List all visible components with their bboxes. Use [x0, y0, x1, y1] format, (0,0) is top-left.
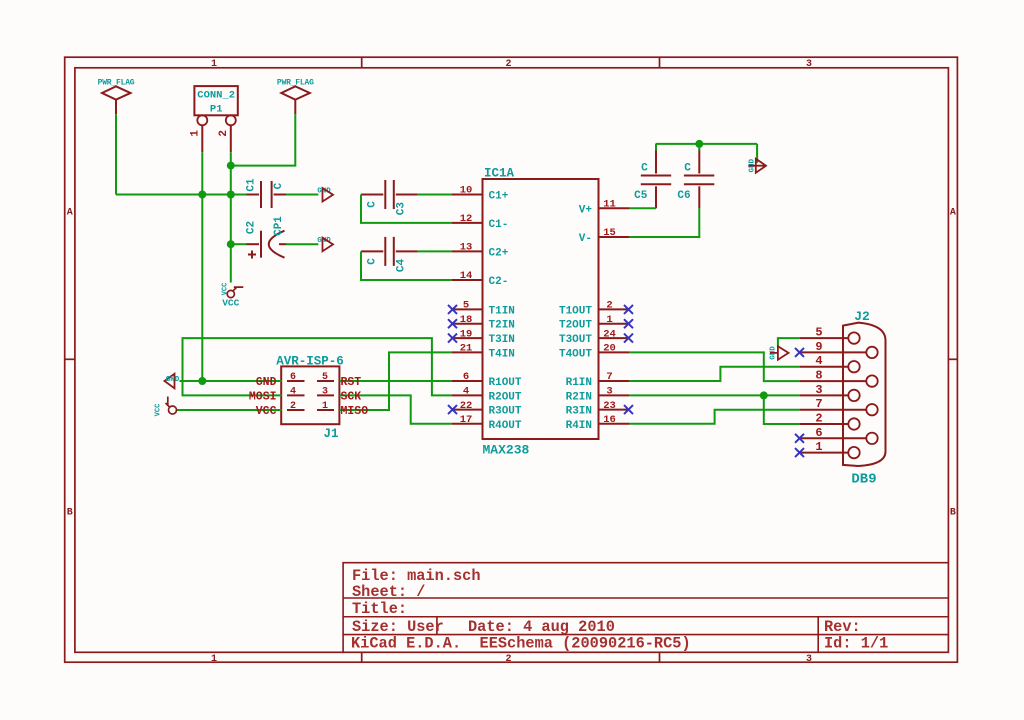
- svg-text:6: 6: [463, 371, 469, 383]
- svg-text:Date: 4 aug 2010: Date: 4 aug 2010: [468, 618, 615, 636]
- svg-text:C3: C3: [396, 202, 408, 216]
- IC1A pin 11 V+: [579, 199, 629, 217]
- wire RST to R1OUT: [339, 380, 452, 382]
- svg-text:18: 18: [460, 314, 473, 326]
- svg-text:3: 3: [815, 383, 822, 397]
- svg-text:R1IN: R1IN: [566, 377, 592, 389]
- svg-text:C5: C5: [634, 190, 648, 202]
- svg-text:19: 19: [460, 328, 473, 340]
- IC1A pin 17 R4OUT: [452, 414, 522, 432]
- svg-text:T2OUT: T2OUT: [559, 320, 592, 332]
- svg-text:MOSI: MOSI: [249, 390, 277, 403]
- svg-text:17: 17: [460, 414, 473, 426]
- junction at C1 left: [227, 191, 235, 199]
- no-connect IC left pin at y=338.1: [448, 334, 457, 343]
- svg-text:R3IN: R3IN: [566, 406, 592, 418]
- connector P1 CONN_2: [194, 86, 237, 115]
- capacitor C5: [634, 150, 671, 209]
- svg-text:J2: J2: [854, 309, 870, 324]
- IC1A pin 21 T4IN: [452, 343, 515, 361]
- capacitor C1: [246, 178, 287, 208]
- no-connect IC right pin at y=309.4: [624, 305, 633, 314]
- wire C3 right to pin 10: [418, 194, 452, 196]
- wire branch to J2 pin 2: [764, 395, 800, 424]
- svg-text:T4IN: T4IN: [489, 348, 515, 360]
- svg-text:C4: C4: [396, 259, 408, 273]
- svg-text:21: 21: [460, 343, 473, 355]
- svg-text:C: C: [366, 201, 378, 208]
- no-connect J2 pin 1: [795, 448, 804, 457]
- power flag PWR_FLAG (left): [98, 79, 135, 115]
- wire R4IN to J2 pin 7: [629, 410, 800, 424]
- J1 pin 1 MISO: [317, 401, 334, 412]
- no-connect J2 pin 9: [795, 348, 804, 357]
- svg-text:B: B: [67, 508, 73, 519]
- capacitor CP1 (C2, polarized): [246, 216, 287, 259]
- P1 pin 1: [190, 115, 208, 152]
- IC1A pin 14 C2-: [452, 270, 508, 288]
- svg-text:B: B: [950, 508, 956, 519]
- svg-text:Id: 1/1: Id: 1/1: [824, 634, 888, 652]
- svg-text:16: 16: [603, 414, 616, 426]
- op-amp/IC U1: IC1A MAX238 body: [483, 167, 599, 458]
- power flag PWR_FLAG (right): [277, 79, 314, 115]
- IC1A pin 12 C1-: [452, 213, 508, 231]
- svg-text:1: 1: [815, 440, 822, 454]
- connector J2 DB9 body: [843, 309, 886, 488]
- IC1A pin 20 T4OUT: [559, 343, 629, 361]
- svg-text:CP1: CP1: [273, 216, 285, 236]
- svg-text:6: 6: [290, 372, 296, 383]
- ground symbol near C5/C6: [748, 158, 766, 172]
- svg-text:T4OUT: T4OUT: [559, 348, 592, 360]
- svg-text:Sheet: /: Sheet: /: [352, 583, 425, 601]
- IC1A pin 5 T1IN: [452, 300, 515, 318]
- J2 pin 6: [800, 426, 878, 444]
- wire V- to C6: [629, 208, 699, 237]
- IC1A pin 4 R2OUT: [452, 386, 522, 404]
- svg-text:DB9: DB9: [851, 472, 876, 488]
- svg-text:R4OUT: R4OUT: [489, 420, 522, 432]
- wire GND symbol to J1 pin6: [180, 380, 283, 382]
- power symbol VCC (at J1): [155, 397, 177, 417]
- wire C1 to GND symbol: [286, 194, 318, 196]
- IC1A pin 16 R4IN: [566, 414, 629, 432]
- svg-text:MAX238: MAX238: [483, 443, 530, 458]
- svg-text:R3OUT: R3OUT: [489, 406, 522, 418]
- svg-text:C2: C2: [246, 221, 258, 234]
- power symbol VCC (below P1): [222, 283, 244, 309]
- svg-text:R4IN: R4IN: [566, 420, 592, 432]
- no-connect IC left pin at y=323.7: [448, 319, 457, 328]
- svg-text:11: 11: [603, 199, 616, 211]
- svg-text:V+: V+: [579, 204, 593, 216]
- svg-text:6: 6: [815, 426, 822, 440]
- IC1A pin 13 C2+: [452, 242, 509, 260]
- J2 pin 2: [800, 412, 860, 430]
- wire pwr-flag-left down: [115, 114, 117, 194]
- svg-text:A: A: [67, 208, 73, 219]
- wire C4 right to pin 13: [418, 250, 452, 252]
- wire SCK to R4OUT: [339, 395, 452, 423]
- svg-text:1: 1: [211, 654, 217, 665]
- capacitor C4: [361, 237, 418, 272]
- svg-text:R2IN: R2IN: [566, 391, 592, 403]
- svg-text:4: 4: [290, 386, 296, 397]
- wire P1 pin1 to GND row: [201, 152, 203, 381]
- svg-text:2: 2: [505, 59, 511, 70]
- wire pwr-flag-right to VCC net: [231, 114, 295, 165]
- IC1A pin 18 T2IN: [452, 314, 515, 332]
- IC1A pin 7 R1IN: [566, 371, 629, 389]
- capacitor C6: [677, 150, 714, 209]
- svg-text:24: 24: [603, 328, 616, 340]
- IC1A pin 19 T3IN: [452, 328, 515, 346]
- no-connect IC left pin at y=309.4: [448, 305, 457, 314]
- svg-text:SCK: SCK: [341, 390, 362, 403]
- svg-text:AVR-ISP-6: AVR-ISP-6: [276, 355, 344, 369]
- wire VCC symbol to J1 pin2: [176, 409, 282, 411]
- connector J1 AVR-ISP-6 body: [276, 355, 344, 441]
- svg-text:8: 8: [815, 369, 822, 383]
- svg-text:2: 2: [218, 130, 230, 137]
- svg-text:T3OUT: T3OUT: [559, 334, 592, 346]
- svg-text:C1-: C1-: [489, 219, 509, 231]
- no-connect IC right pin at y=323.7: [624, 319, 633, 328]
- junction at P1 pin1 / C1 row: [198, 191, 206, 199]
- IC1A pin 22 R3OUT: [452, 400, 522, 418]
- svg-text:3: 3: [806, 59, 812, 70]
- junction at R2IN branch: [760, 391, 768, 399]
- svg-text:R1OUT: R1OUT: [489, 377, 522, 389]
- svg-text:T3IN: T3IN: [489, 334, 515, 346]
- svg-text:2: 2: [505, 654, 511, 665]
- svg-text:9: 9: [815, 340, 822, 354]
- svg-text:C: C: [684, 162, 691, 174]
- svg-text:1: 1: [322, 401, 328, 412]
- svg-text:GND: GND: [166, 376, 180, 384]
- svg-text:1: 1: [211, 59, 217, 70]
- svg-text:T2IN: T2IN: [489, 320, 515, 332]
- svg-text:C: C: [641, 162, 648, 174]
- svg-text:A: A: [950, 208, 956, 219]
- ground symbol at CP1: [317, 237, 333, 251]
- svg-text:1: 1: [606, 314, 612, 326]
- wire T4OUT to J2 pin 8: [629, 352, 800, 381]
- svg-text:VCC: VCC: [256, 405, 277, 418]
- svg-text:VCC: VCC: [155, 404, 163, 417]
- IC1A pin 15 V-: [579, 227, 629, 245]
- junction at J1 GND row: [198, 377, 206, 385]
- svg-text:C6: C6: [677, 190, 690, 202]
- svg-text:VCC: VCC: [222, 283, 230, 296]
- no-connect J2 pin 6: [795, 434, 804, 443]
- wire C5/C6 tops to GND: [656, 143, 758, 145]
- svg-text:R2OUT: R2OUT: [489, 391, 522, 403]
- svg-text:MISO: MISO: [341, 405, 369, 418]
- svg-text:IC1A: IC1A: [484, 167, 515, 181]
- IC1A pin 1 T2OUT: [559, 314, 629, 332]
- J2 pin 8: [800, 369, 878, 387]
- IC1A pin 23 R3IN: [566, 400, 629, 418]
- ground symbol at C1: [317, 188, 333, 202]
- no-connect IC right pin at y=338.1: [624, 334, 633, 343]
- IC1A pin 2 T1OUT: [559, 300, 629, 318]
- svg-text:23: 23: [603, 400, 616, 412]
- svg-text:14: 14: [460, 270, 473, 282]
- svg-text:2: 2: [290, 401, 296, 412]
- wire VCC to C2: [231, 243, 247, 245]
- svg-text:J1: J1: [323, 427, 338, 441]
- svg-text:C1+: C1+: [489, 191, 509, 203]
- junction at C2 left: [227, 240, 235, 248]
- svg-text:C1: C1: [246, 178, 258, 192]
- svg-text:5: 5: [815, 326, 822, 340]
- wire V+ to C5: [629, 207, 656, 209]
- svg-text:12: 12: [460, 213, 473, 225]
- svg-text:7: 7: [606, 371, 612, 383]
- junction at C6 top: [695, 140, 703, 148]
- svg-text:1: 1: [190, 130, 202, 137]
- svg-text:3: 3: [806, 654, 812, 665]
- title block: [343, 563, 948, 653]
- svg-text:3: 3: [322, 386, 328, 397]
- no-connect IC right pin at y=409.6: [624, 405, 633, 414]
- J1 pin 3 SCK: [317, 386, 334, 397]
- svg-text:T1OUT: T1OUT: [559, 305, 592, 317]
- svg-text:10: 10: [460, 185, 473, 197]
- J1 pin 6 GND: [287, 372, 305, 383]
- wire CP1 to GND symbol: [286, 243, 318, 245]
- svg-text:C: C: [366, 258, 378, 265]
- J2 pin 3: [800, 383, 860, 401]
- IC1A pin 3 R2IN: [566, 386, 629, 404]
- wire C5 top stub: [655, 144, 657, 151]
- IC1A pin 6 R1OUT: [452, 371, 522, 389]
- wire J1 MOSI to R2OUT: [183, 338, 453, 395]
- wire R2IN to J2 pin 3: [629, 394, 800, 396]
- svg-text:Rev:: Rev:: [824, 618, 861, 636]
- svg-text:2: 2: [815, 412, 822, 426]
- wire GND flag / C1 row horizontal: [116, 194, 247, 196]
- svg-text:CONN_2: CONN_2: [197, 89, 235, 101]
- svg-text:22: 22: [460, 400, 473, 412]
- svg-text:C2+: C2+: [489, 247, 509, 259]
- J2 pin 9: [800, 340, 878, 358]
- J2 pin 7: [800, 397, 878, 415]
- J1 pin 5 RST: [317, 372, 334, 383]
- svg-text:Title:: Title:: [352, 600, 407, 618]
- svg-text:GND: GND: [256, 376, 277, 389]
- svg-text:4: 4: [463, 386, 469, 398]
- J1 pin 4 MOSI: [287, 386, 305, 397]
- svg-text:Size: User: Size: User: [352, 618, 444, 636]
- svg-text:15: 15: [603, 227, 616, 239]
- J2 pin 1: [800, 440, 860, 458]
- svg-text:2: 2: [606, 300, 612, 312]
- no-connect IC left pin at y=409.6: [448, 405, 457, 414]
- IC1A pin 10 C1+: [452, 185, 509, 203]
- svg-text:RST: RST: [341, 376, 362, 389]
- wire MISO to T4IN: [339, 352, 452, 410]
- capacitor C3: [361, 180, 418, 215]
- wire down to GND symbol: [756, 144, 758, 163]
- wire C3 left to pin 12: [361, 195, 452, 223]
- svg-text:C: C: [273, 182, 285, 189]
- wire J2 pin 5 to GND: [778, 338, 800, 347]
- svg-text:C2-: C2-: [489, 276, 509, 288]
- svg-text:T1IN: T1IN: [489, 305, 515, 317]
- P1 pin 2: [218, 115, 236, 152]
- junction at P1 pin2 / pwr-flag right: [227, 162, 235, 170]
- ground symbol at J2 pin 5: [770, 346, 789, 360]
- svg-text:7: 7: [815, 397, 822, 411]
- svg-text:VCC: VCC: [222, 298, 239, 309]
- J1 pin 2 VCC: [287, 401, 305, 412]
- ground symbol at J1: [165, 374, 180, 389]
- svg-text:3: 3: [606, 386, 612, 398]
- J2 pin 4: [800, 354, 860, 372]
- svg-text:KiCad E.D.A. EESchema (200902: KiCad E.D.A. EESchema (20090216-RC5): [351, 634, 691, 652]
- svg-text:20: 20: [603, 343, 616, 355]
- wire C4 left to pin 14: [361, 251, 452, 280]
- svg-text:P1: P1: [210, 103, 223, 115]
- wire P1 pin2 to VCC symbol: [230, 152, 232, 282]
- svg-text:V-: V-: [579, 233, 592, 245]
- J2 pin 5: [800, 326, 860, 344]
- wire C6 top stub: [698, 144, 700, 151]
- svg-text:5: 5: [322, 372, 328, 383]
- wire R1IN to J2 pin 4: [629, 367, 800, 381]
- IC1A pin 24 T3OUT: [559, 328, 629, 346]
- J1 pin name labels: [249, 376, 368, 418]
- svg-text:4: 4: [815, 354, 822, 368]
- svg-text:13: 13: [460, 242, 473, 254]
- svg-text:5: 5: [463, 300, 469, 312]
